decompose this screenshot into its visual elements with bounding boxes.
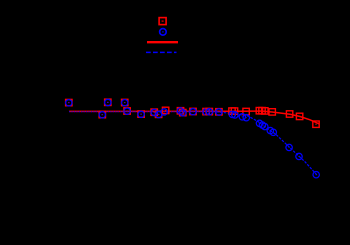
legend: red square marker (159, 18, 166, 25)
blue fit curve falling section (dashed) (212, 112, 317, 175)
blue-only data circles (229, 111, 235, 117)
blue fit curve flat section (fine dashes) (69, 111, 212, 113)
legend: blue dashed line (146, 51, 177, 53)
legend: red solid line (147, 41, 178, 43)
legend: blue circle marker (160, 29, 167, 36)
data point pairs: red squares with blue circles (66, 99, 72, 105)
red fit curve (solid) (69, 111, 319, 124)
red-only data squares (229, 108, 235, 114)
